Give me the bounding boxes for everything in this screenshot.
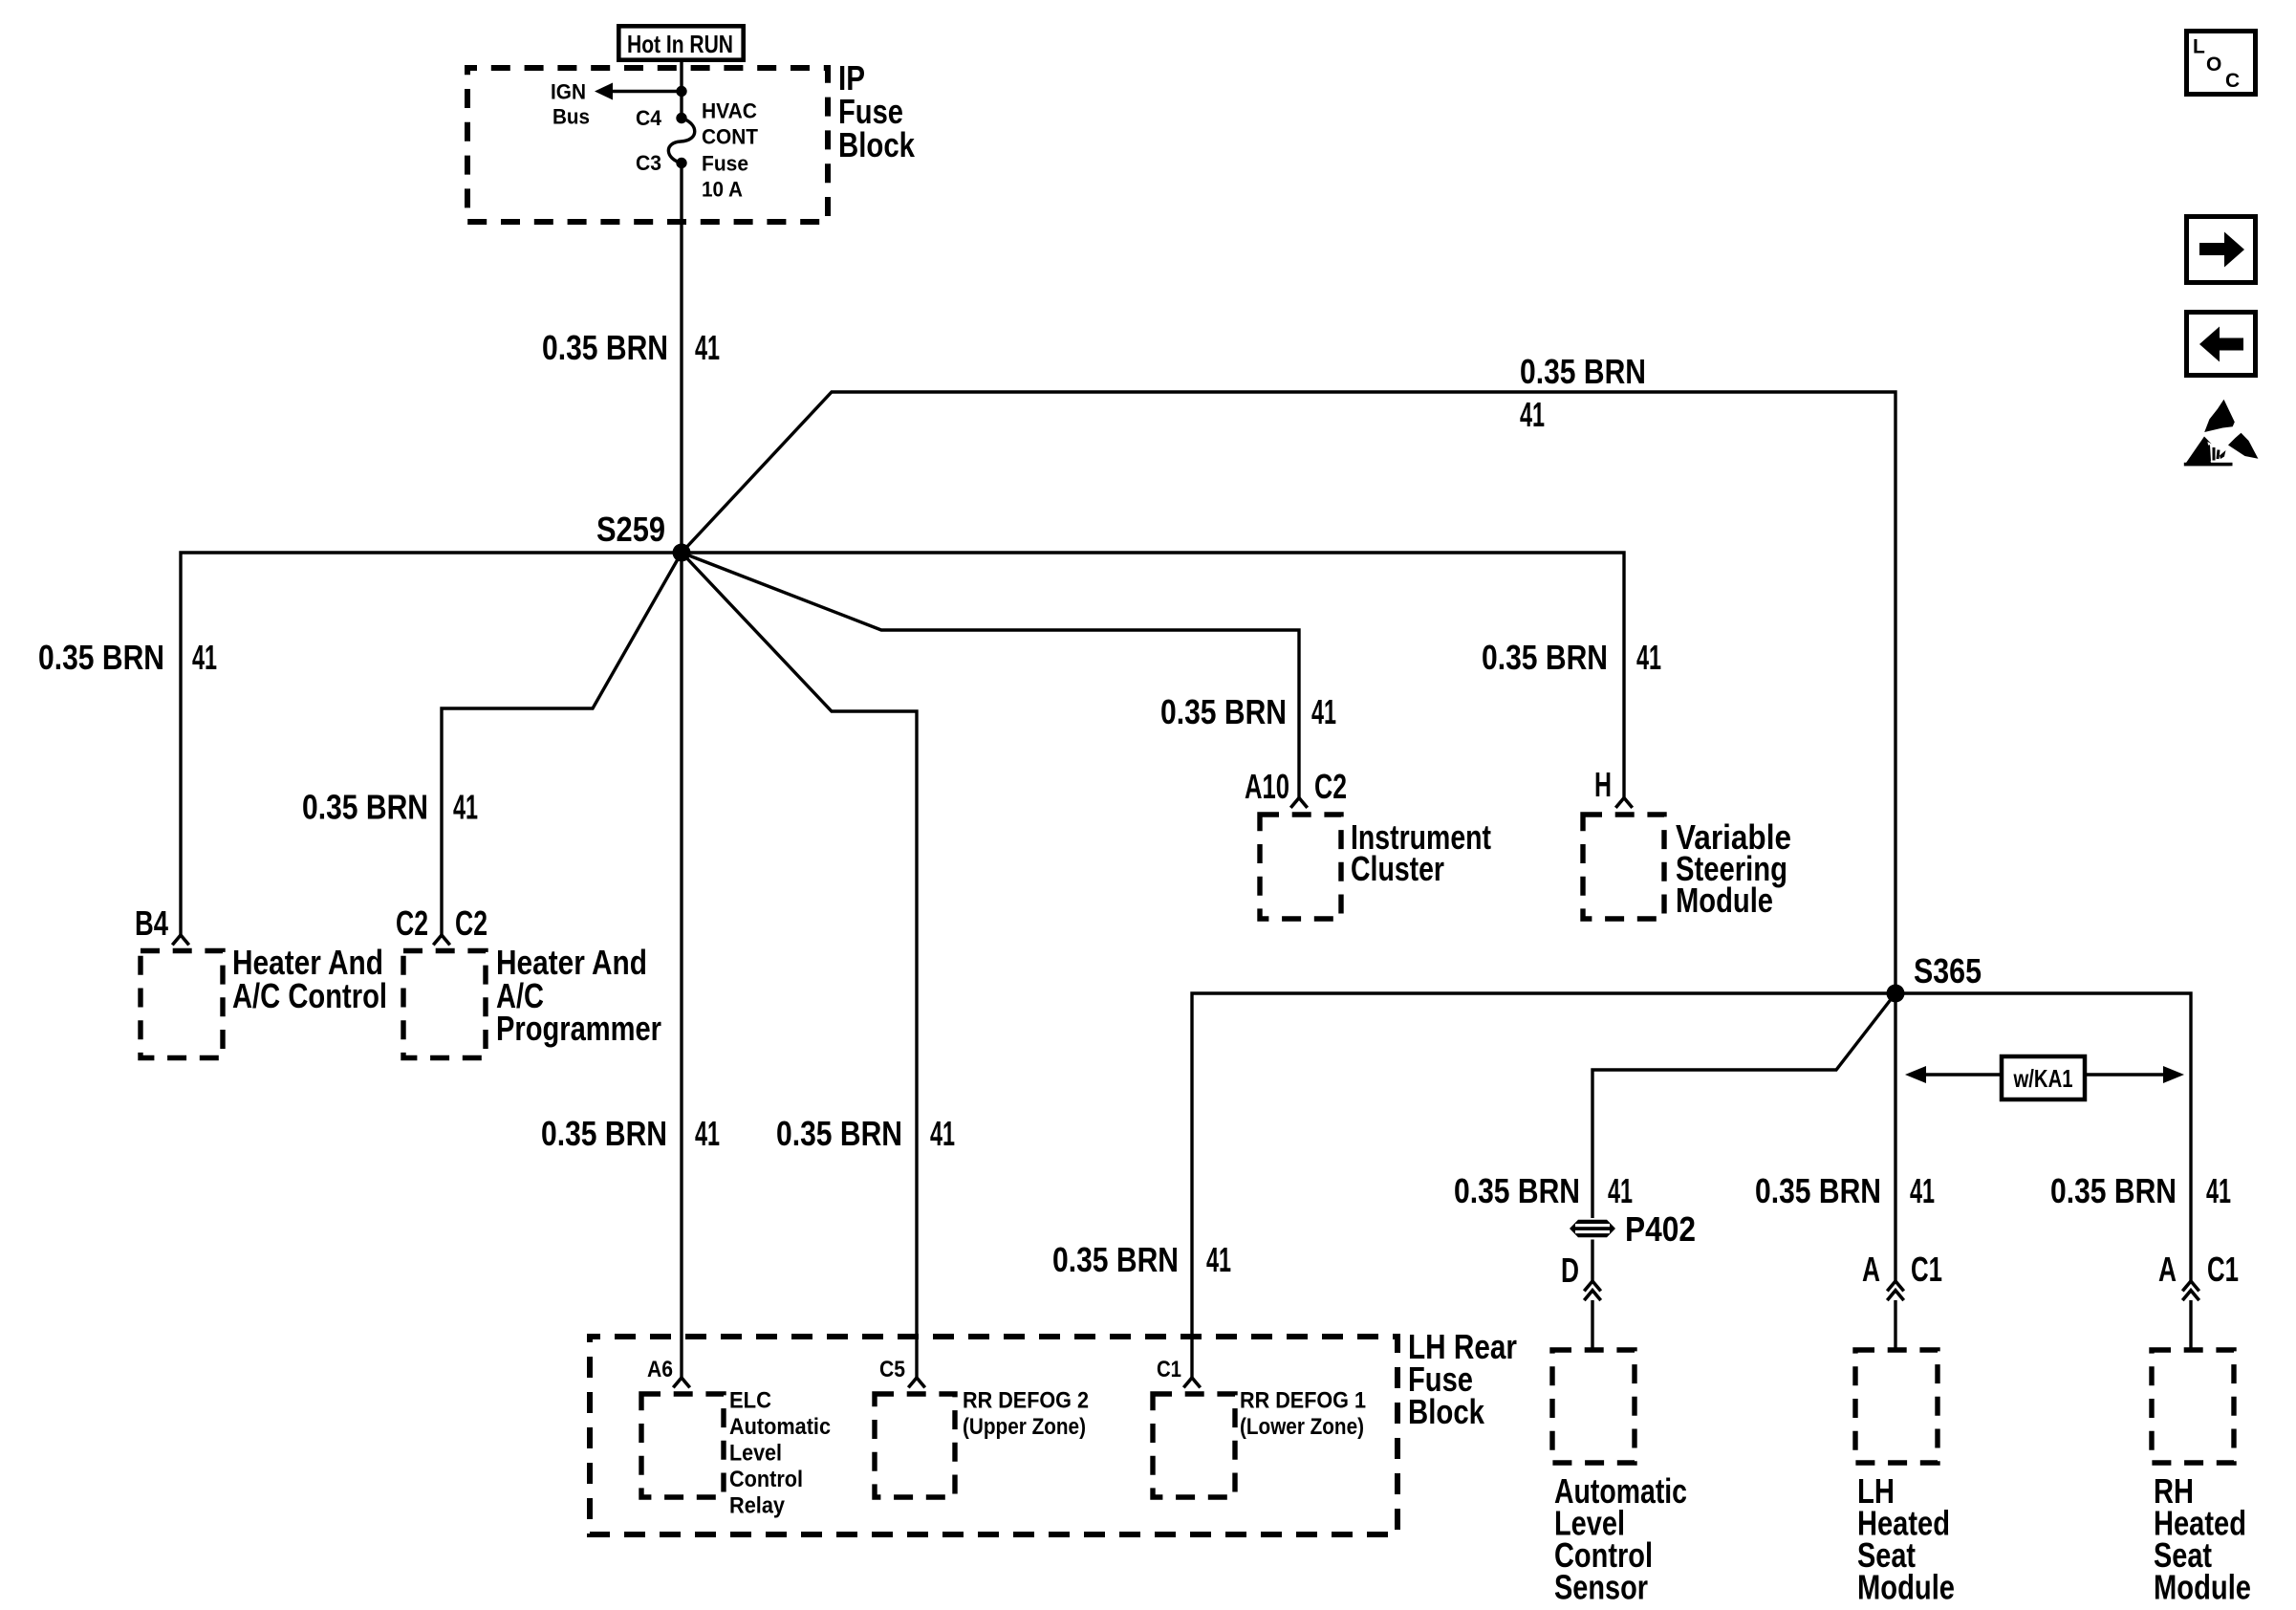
connector double chevron A/C1 (LH) <box>1887 1281 1903 1291</box>
svg-text:41: 41 <box>695 328 720 367</box>
svg-text:41: 41 <box>192 638 217 677</box>
icon: LOC box (top right) <box>2187 32 2256 95</box>
svg-text:41: 41 <box>930 1114 955 1153</box>
svg-text:S259: S259 <box>596 510 665 549</box>
svg-text:0.35 BRN: 0.35 BRN <box>1755 1171 1881 1210</box>
svg-text:Module: Module <box>1676 881 1773 920</box>
Instrument Cluster dashed box <box>1260 815 1341 919</box>
svg-text:w/KA1: w/KA1 <box>2013 1064 2073 1093</box>
svg-text:0.35 BRN: 0.35 BRN <box>2050 1171 2177 1210</box>
svg-text:C2: C2 <box>1314 767 1347 806</box>
svg-text:41: 41 <box>2206 1171 2231 1210</box>
wire: S259 down to LH Rear Fuse Block pin A6 <box>680 553 682 1378</box>
svg-text:C5: C5 <box>879 1357 905 1382</box>
Variable Steering Module dashed box <box>1583 815 1664 919</box>
svg-text:0.35 BRN: 0.35 BRN <box>1520 352 1646 391</box>
fuse HVAC CONT Fuse 10 A (between pins C4 and C3) <box>668 119 694 163</box>
svg-text:0.35 BRN: 0.35 BRN <box>302 788 428 827</box>
Heater And A/C Programmer dashed box <box>403 951 486 1058</box>
node: splice S365 <box>1887 985 1905 1003</box>
wire into RH module box <box>2189 1300 2192 1350</box>
connector double chevron A/C1 (RH) <box>2182 1281 2199 1291</box>
svg-text:Control: Control <box>729 1467 803 1492</box>
wire: Hot In RUN feed into IP fuse block <box>680 58 682 118</box>
w/KA1 box <box>2002 1056 2085 1099</box>
wire: S365 right to RH Heated Seat Module pin A C1 (0.35 BRN 41) <box>1895 993 2191 1281</box>
ELC Automatic Level Control Relay dashed box <box>641 1394 724 1497</box>
svg-text:HVAC: HVAC <box>702 98 757 122</box>
svg-text:Hot In RUN: Hot In RUN <box>627 30 733 58</box>
svg-text:41: 41 <box>1311 692 1336 731</box>
LH Heated Seat Module dashed box <box>1855 1350 1938 1463</box>
wire: S259 left to Heater And A/C Control pin B4 (0.35 BRN 41) <box>181 553 682 935</box>
connector chevron C2 <box>433 935 449 945</box>
wire: S259 to Instrument Cluster pin A10 C2 (0.35 BRN 41) <box>682 553 1299 798</box>
connector double chevron D <box>1584 1281 1600 1291</box>
svg-text:IGN: IGN <box>551 79 586 103</box>
svg-text:41: 41 <box>1910 1171 1935 1210</box>
connector chevron H <box>1615 798 1632 808</box>
svg-text:Relay: Relay <box>729 1493 786 1519</box>
svg-text:Module: Module <box>2154 1568 2251 1607</box>
svg-text:41: 41 <box>1520 395 1545 434</box>
icon: back arrow box <box>2187 313 2256 376</box>
connector chevron A10/C2 <box>1290 798 1307 808</box>
icon: ESD warning triangle <box>2204 400 2235 432</box>
svg-text:Sensor: Sensor <box>1554 1568 1648 1607</box>
wire: S259 up-right to splice S365 (0.35 BRN 41) <box>682 392 1895 993</box>
svg-text:0.35 BRN: 0.35 BRN <box>1052 1240 1179 1279</box>
svg-text:Bus: Bus <box>552 105 590 129</box>
svg-text:C2: C2 <box>396 903 428 943</box>
svg-text:Cluster: Cluster <box>1351 849 1444 888</box>
svg-text:O: O <box>2206 54 2221 76</box>
wire: S365 down to LH Heated Seat Module pin A C1 (0.35 BRN 41) <box>1894 993 1896 1281</box>
svg-text:41: 41 <box>1636 638 1661 677</box>
svg-text:Block: Block <box>838 125 916 164</box>
svg-text:C1: C1 <box>1157 1357 1181 1382</box>
svg-text:0.35 BRN: 0.35 BRN <box>38 638 164 677</box>
wire: fuse C3 to splice S259 (0.35 BRN 41) <box>680 163 682 554</box>
svg-text:Level: Level <box>729 1441 782 1467</box>
connector chevron A6 (ELC relay) <box>673 1378 689 1387</box>
svg-text:10 A: 10 A <box>702 177 743 201</box>
svg-text:CONT: CONT <box>702 124 759 148</box>
svg-text:C2: C2 <box>455 903 487 943</box>
wire: S259 to Heater And A/C Programmer pin C2 (0.35 BRN 41) <box>442 553 682 935</box>
RH Heated Seat Module dashed box <box>2152 1350 2234 1463</box>
node: fuse pin C3 <box>676 158 686 168</box>
svg-text:C: C <box>2225 70 2240 92</box>
svg-text:0.35 BRN: 0.35 BRN <box>1482 638 1608 677</box>
svg-text:C4: C4 <box>636 106 662 130</box>
wire: IGN Bus tap with left arrow <box>610 90 682 93</box>
svg-text:A/C Control: A/C Control <box>232 976 387 1015</box>
node: fuse pin C4 <box>676 113 686 123</box>
IP Fuse Block dashed box <box>467 68 828 222</box>
wire below P402 <box>1591 1240 1593 1282</box>
svg-text:A10: A10 <box>1245 767 1289 806</box>
svg-text:D: D <box>1561 1251 1579 1290</box>
svg-text:0.35 BRN: 0.35 BRN <box>542 328 668 367</box>
LH Rear Fuse Block dashed box <box>590 1337 1397 1534</box>
svg-text:C3: C3 <box>636 151 661 175</box>
svg-text:RR DEFOG 2: RR DEFOG 2 <box>963 1388 1089 1414</box>
svg-text:RR DEFOG 1: RR DEFOG 1 <box>1240 1388 1366 1414</box>
svg-text:H: H <box>1594 765 1612 804</box>
icon: forward arrow box <box>2187 217 2256 283</box>
wire: S259 right to Variable Steering Module pin H (0.35 BRN 41) <box>682 553 1624 798</box>
svg-text:Programmer: Programmer <box>496 1009 661 1048</box>
svg-text:Module: Module <box>1857 1568 1955 1607</box>
svg-text:0.35 BRN: 0.35 BRN <box>1160 692 1287 731</box>
connector chevron C1 (RR DEFOG 1) <box>1183 1378 1200 1387</box>
svg-text:Block: Block <box>1408 1392 1485 1431</box>
svg-text:0.35 BRN: 0.35 BRN <box>1454 1171 1580 1210</box>
Hot In RUN box <box>618 26 743 59</box>
svg-text:C1: C1 <box>1911 1250 1942 1289</box>
svg-text:S365: S365 <box>1914 951 1982 990</box>
svg-text:41: 41 <box>1206 1240 1231 1279</box>
svg-text:P402: P402 <box>1625 1209 1696 1249</box>
svg-text:L: L <box>2193 36 2205 58</box>
node: IGN Bus tap junction <box>676 86 686 97</box>
connector chevron B4 <box>172 935 188 945</box>
wire: S259 to RR DEFOG 2 pin C5 (0.35 BRN 41) <box>682 553 917 1378</box>
connector chevron C5 <box>908 1378 924 1387</box>
Heater And A/C Control dashed box <box>141 951 223 1058</box>
wire: S365 to Automatic Level Control Sensor pin D (0.35 BRN 41) <box>1592 993 1895 1218</box>
inline connector P402 <box>1570 1220 1615 1237</box>
svg-text:A: A <box>2158 1250 2177 1289</box>
svg-text:(Upper Zone): (Upper Zone) <box>963 1414 1086 1440</box>
svg-text:A: A <box>1862 1250 1880 1289</box>
svg-text:0.35 BRN: 0.35 BRN <box>541 1114 667 1153</box>
svg-text:C1: C1 <box>2207 1250 2239 1289</box>
svg-text:B4: B4 <box>135 903 168 943</box>
svg-text:0.35 BRN: 0.35 BRN <box>776 1114 902 1153</box>
wire into LH module box <box>1894 1300 1896 1350</box>
svg-text:ELC: ELC <box>729 1388 771 1414</box>
wire: S365 left to LH Rear Fuse Block pin C1 (0.35 BRN 41) <box>1192 993 1895 1378</box>
node: splice S259 <box>673 544 691 562</box>
svg-text:A6: A6 <box>647 1357 673 1382</box>
svg-text:(Lower Zone): (Lower Zone) <box>1240 1414 1364 1440</box>
svg-text:Automatic: Automatic <box>729 1414 831 1440</box>
w/KA1 option range arrow <box>1923 1073 2000 1076</box>
svg-text:41: 41 <box>1608 1171 1633 1210</box>
svg-text:41: 41 <box>695 1114 720 1153</box>
RR DEFOG 2 dashed box <box>875 1394 955 1497</box>
Automatic Level Control Sensor dashed box <box>1552 1350 1635 1463</box>
svg-text:41: 41 <box>453 788 478 827</box>
svg-text:Fuse: Fuse <box>702 151 748 175</box>
wire into sensor box <box>1591 1300 1593 1350</box>
RR DEFOG 1 dashed box <box>1153 1394 1235 1497</box>
